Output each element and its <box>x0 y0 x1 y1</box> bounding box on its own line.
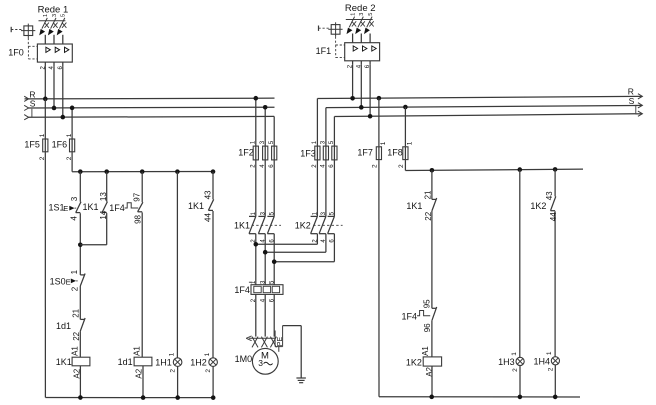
svg-text:1F6: 1F6 <box>52 140 68 150</box>
svg-text:44: 44 <box>204 213 213 222</box>
contact 1F4 97-98 (overload trip NO) <box>109 192 143 224</box>
ground <box>296 378 306 383</box>
pushbutton 1S0 (NC, stop) <box>50 269 86 291</box>
node 1F0/R <box>43 97 48 102</box>
wire <box>177 366 179 397</box>
node <box>141 395 146 400</box>
svg-text:3: 3 <box>258 358 263 368</box>
svg-text:1: 1 <box>70 269 79 274</box>
node merge 2 <box>263 250 268 255</box>
svg-text:1F4: 1F4 <box>109 203 125 213</box>
wire <box>79 172 81 202</box>
bus R right <box>317 87 642 146</box>
pushbutton 1S1 (NO, start) <box>49 196 82 220</box>
wire <box>176 172 178 358</box>
fuse 1F2 (3-pole) <box>238 140 277 168</box>
node 1F7/R <box>377 96 382 101</box>
svg-text:1d1: 1d1 <box>118 357 133 367</box>
node <box>175 395 180 400</box>
node 1F6/S <box>70 106 75 111</box>
contactor coil 1K1 <box>56 346 90 379</box>
svg-text:43: 43 <box>204 190 213 199</box>
svg-text:1K2: 1K2 <box>530 201 546 211</box>
contact 1d1 21-22 (NC) <box>56 308 85 340</box>
lamp 1H1 <box>155 352 182 372</box>
wire <box>141 172 143 203</box>
svg-text:Rede 2: Rede 2 <box>345 3 376 14</box>
svg-text:A1: A1 <box>421 346 430 356</box>
svg-text:Rede 1: Rede 1 <box>38 4 69 15</box>
circuit breaker 1F0 <box>8 44 72 62</box>
svg-text:1S1: 1S1 <box>49 203 65 213</box>
return bus left <box>45 152 213 397</box>
svg-text:2: 2 <box>512 368 519 372</box>
svg-text:5: 5 <box>368 13 374 16</box>
node merge 3 <box>272 259 277 264</box>
svg-text:1H1: 1H1 <box>155 358 172 368</box>
svg-text:1: 1 <box>511 352 518 356</box>
node merge 1 <box>254 242 259 247</box>
svg-text:A1: A1 <box>133 346 142 356</box>
output wires of 1F1 <box>348 61 372 68</box>
svg-text:95: 95 <box>423 299 432 308</box>
wire <box>79 213 81 275</box>
wire <box>79 286 81 319</box>
lamp 1H2 <box>190 352 217 372</box>
wire 1F6 to control bus <box>71 152 73 171</box>
wire merge phase 3 <box>274 234 334 285</box>
node 1F1/R <box>350 96 355 101</box>
svg-text:3: 3 <box>359 13 365 16</box>
node 1F2/S <box>263 105 268 110</box>
node 1F0/T <box>61 115 66 120</box>
withdrawable disconnect contacts of 1F0 <box>39 14 67 44</box>
svg-text:3: 3 <box>52 14 58 17</box>
svg-text:1F4: 1F4 <box>234 285 250 295</box>
wire <box>519 366 521 397</box>
contact 1K1 43-44 (NO) <box>188 190 214 222</box>
wire <box>431 170 433 199</box>
contact 1K1 13-14 (NO seal-in) <box>83 192 109 220</box>
svg-text:1K1: 1K1 <box>56 357 72 367</box>
node 1F8/S <box>403 105 408 110</box>
svg-text:1: 1 <box>350 13 356 16</box>
node branch 1K1 13-14 <box>104 169 109 174</box>
wire <box>79 366 81 398</box>
output wires of 1F0 <box>40 62 64 69</box>
svg-text:1F8: 1F8 <box>387 148 403 158</box>
motor terminal rail <box>246 336 275 341</box>
node branch 1H4 <box>553 167 558 172</box>
contactor 1K1 main contacts <box>234 211 281 242</box>
svg-text:2: 2 <box>170 369 177 373</box>
node 1F1/T <box>368 114 373 119</box>
svg-text:S: S <box>30 99 36 109</box>
svg-text:1F4: 1F4 <box>402 311 418 321</box>
svg-text:PE: PE <box>277 337 284 347</box>
node branch 1F4 97-98 <box>140 169 145 174</box>
bus T right <box>334 111 642 146</box>
svg-text:1F0: 1F0 <box>8 47 24 57</box>
fuse 1F6 <box>52 108 75 160</box>
svg-text:1F5: 1F5 <box>24 140 40 150</box>
contact 1K2 43-44 (NO) <box>530 191 557 221</box>
svg-text:5: 5 <box>61 14 67 17</box>
wire <box>106 172 108 202</box>
svg-text:43: 43 <box>545 191 554 200</box>
fuse 1F3 (3-pole) <box>300 140 337 168</box>
wires 1F1 to right bus <box>353 65 371 117</box>
wires 1F2 to 1K1 contacts <box>256 160 274 216</box>
node <box>429 395 434 400</box>
bus T left <box>24 115 274 120</box>
svg-text:98: 98 <box>134 214 143 223</box>
supply label Rede 1 <box>38 4 69 15</box>
wire <box>554 169 556 196</box>
svg-text:1F7: 1F7 <box>357 148 373 158</box>
svg-text:2: 2 <box>205 369 212 373</box>
svg-text:1K1: 1K1 <box>234 220 250 230</box>
node <box>553 395 558 400</box>
wire 1F8 to control bus <box>404 160 406 170</box>
svg-text:1: 1 <box>204 352 211 356</box>
withdrawable disconnect contacts of 1F1 <box>346 13 374 43</box>
wire <box>141 212 143 357</box>
svg-text:21: 21 <box>424 190 433 199</box>
svg-text:44: 44 <box>549 212 558 221</box>
cable marks <box>252 337 276 348</box>
circuit breaker 1F1 <box>316 43 380 61</box>
svg-text:21: 21 <box>72 308 81 317</box>
wire merge phase 1 <box>256 234 318 285</box>
svg-text:E: E <box>63 204 68 213</box>
svg-text:S: S <box>629 96 635 106</box>
disconnect handle for 1F1 <box>319 22 345 57</box>
svg-text:1K2: 1K2 <box>295 220 311 230</box>
wires 1F4 to motor <box>256 294 274 336</box>
wire <box>79 331 81 357</box>
svg-text:3: 3 <box>70 196 79 201</box>
fuse 1F7 <box>357 98 386 168</box>
wire <box>431 366 433 397</box>
wire <box>519 170 521 358</box>
svg-text:1F3: 1F3 <box>300 148 316 158</box>
node branch 1S1 <box>78 169 83 174</box>
svg-text:1d1: 1d1 <box>56 321 71 331</box>
bus R left <box>24 89 274 101</box>
control bus left <box>72 171 213 173</box>
wire <box>554 211 556 356</box>
svg-text:1K2: 1K2 <box>406 358 422 368</box>
wire <box>431 321 433 357</box>
node 1F0/S <box>52 106 57 111</box>
control bus right <box>405 169 583 170</box>
node branch 1K1 43-44 <box>211 169 216 174</box>
svg-text:2: 2 <box>398 164 405 168</box>
svg-text:97: 97 <box>133 192 142 201</box>
svg-text:1F2: 1F2 <box>238 147 254 157</box>
svg-text:1K1: 1K1 <box>188 201 204 211</box>
wire <box>212 366 214 397</box>
svg-text:1F1: 1F1 <box>316 46 332 56</box>
node branch 1H3 <box>518 167 523 172</box>
svg-text:A2: A2 <box>134 368 143 378</box>
svg-text:1: 1 <box>546 351 553 355</box>
svg-text:1K1: 1K1 <box>406 201 422 211</box>
wire <box>554 365 556 397</box>
svg-text:2: 2 <box>71 286 80 291</box>
svg-text:13: 13 <box>99 192 108 201</box>
node <box>78 395 83 400</box>
wire <box>212 211 214 358</box>
supply label Rede 2 <box>345 3 376 14</box>
svg-text:2: 2 <box>547 367 554 371</box>
node 1F2/R <box>254 96 259 101</box>
node <box>518 395 523 400</box>
svg-text:1: 1 <box>39 133 46 137</box>
svg-text:1H3: 1H3 <box>498 357 515 367</box>
svg-text:4: 4 <box>69 216 78 221</box>
fuse 1F5 <box>24 99 48 160</box>
node <box>211 395 216 400</box>
wires 1F0 to left bus <box>45 66 63 117</box>
svg-text:1: 1 <box>43 14 49 17</box>
svg-text:1M0: 1M0 <box>235 354 253 364</box>
svg-text:1: 1 <box>406 141 413 145</box>
wires bus to 1F2 <box>256 98 274 145</box>
lamp 1H4 <box>534 351 560 371</box>
node seal-in join <box>78 243 83 248</box>
contactor 1K2 main contacts <box>295 211 343 242</box>
svg-text:E: E <box>66 277 71 286</box>
wire <box>212 172 214 200</box>
wires 1F3 to 1K2 contacts <box>317 160 334 216</box>
wire PE to ground <box>283 326 302 378</box>
svg-text:2: 2 <box>372 164 379 168</box>
lamp 1H3 <box>498 352 524 372</box>
svg-text:1K1: 1K1 <box>83 202 99 212</box>
wire <box>80 213 106 245</box>
wire merge phase 2 <box>265 234 326 285</box>
overload relay 1F4 (power element) <box>234 280 283 302</box>
node branch 1H1 <box>175 169 180 174</box>
disconnect handle for 1F0 <box>11 24 37 59</box>
return bus right <box>379 160 580 397</box>
svg-text:1: 1 <box>168 352 175 356</box>
svg-text:A1: A1 <box>71 346 80 356</box>
motor 1M0 <box>235 348 279 374</box>
svg-text:1S0: 1S0 <box>50 276 66 286</box>
fuse 1F8 <box>387 107 413 168</box>
svg-text:1: 1 <box>66 133 73 137</box>
node branch 1K2 coil <box>430 168 435 173</box>
svg-text:1H4: 1H4 <box>534 357 551 367</box>
contact 1K1 21-22 (NC interlock) <box>406 190 436 221</box>
contactor coil 1K2 <box>406 346 442 377</box>
wire <box>431 211 433 308</box>
PE terminal <box>275 326 284 352</box>
svg-text:1: 1 <box>380 141 387 145</box>
node 1F1/S <box>359 105 364 110</box>
svg-text:96: 96 <box>423 323 432 332</box>
svg-text:1H2: 1H2 <box>190 358 207 368</box>
relay coil 1d1 <box>118 346 152 379</box>
contact 1F4 95-96 (overload NC) <box>402 299 437 332</box>
bus S right <box>326 96 643 146</box>
wire <box>142 366 144 398</box>
bus S left <box>24 99 274 118</box>
